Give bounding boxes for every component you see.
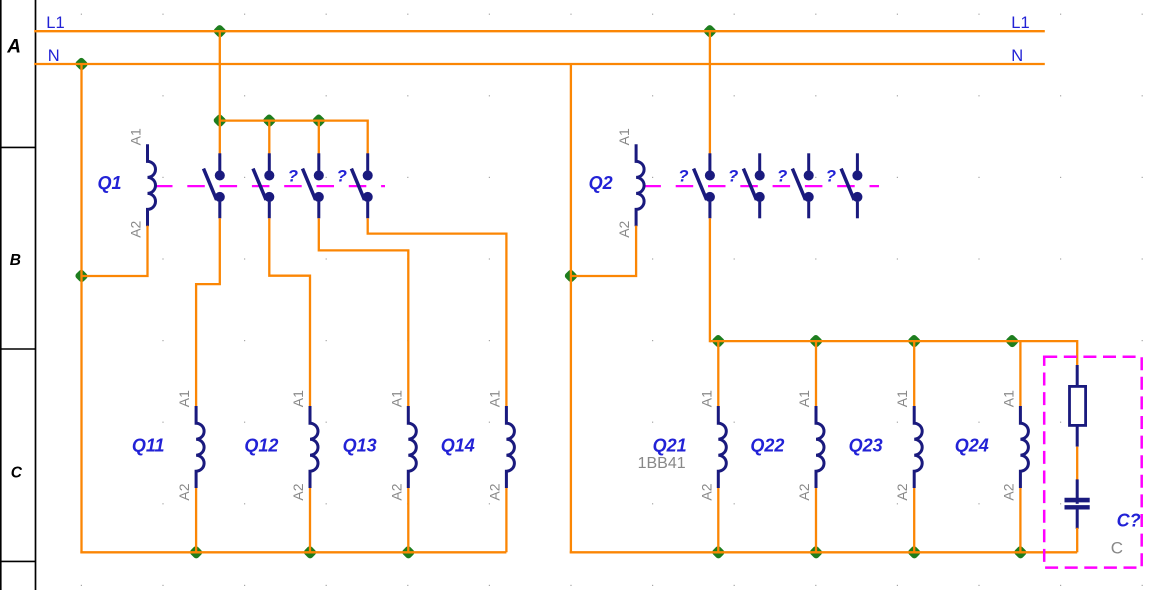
zone divider C/D [0, 560, 36, 562]
node bus2 x Q24 [1005, 334, 1020, 349]
svg-text:Q2: Q2 [589, 173, 613, 193]
coil Q11 [196, 406, 204, 488]
svg-text:A2: A2 [176, 483, 192, 500]
capacitor C plate bottom [1065, 505, 1090, 509]
svg-text:L1: L1 [1011, 14, 1029, 32]
wire Q22 to bottom rail [815, 488, 817, 552]
svg-text:Q24: Q24 [955, 435, 989, 455]
svg-text:A1: A1 [290, 390, 306, 407]
wire coil bus right group [710, 340, 1077, 342]
svg-text:A2: A2 [796, 483, 812, 500]
wire Q1.4 to Q14 [368, 218, 507, 406]
coil Q23 [914, 406, 922, 488]
node right rail x Q2.A2 [564, 269, 579, 284]
wire cap branch top [1076, 340, 1078, 366]
wire Q2 A2 to rail [571, 226, 636, 276]
wire resistor lead top [1076, 365, 1079, 387]
node bus x Q1.3 [311, 113, 326, 128]
svg-text:A2: A2 [388, 483, 404, 500]
wire contact bus Q1 [220, 119, 368, 121]
node bus x Q1.1 [212, 113, 227, 128]
contact Q1.2 [253, 153, 274, 218]
svg-text:A2: A2 [1000, 483, 1016, 500]
wire Q1.1 to Q11 [196, 218, 220, 406]
resistor R (rect) [1070, 386, 1086, 425]
wire resistor lead bottom [1076, 425, 1079, 446]
svg-text:C: C [11, 465, 23, 482]
node bottom rail x Q21 [711, 545, 726, 560]
wire L1 line [34, 30, 1045, 32]
svg-text:C?: C? [1117, 510, 1141, 530]
wire Q23 top [913, 341, 915, 406]
node bottom rail x Q24 [1013, 545, 1028, 560]
contact Q1.4 [351, 153, 372, 218]
wire between R and C [1076, 447, 1078, 481]
selection box C? (dashed) [1044, 357, 1142, 568]
svg-text:A1: A1 [388, 390, 404, 407]
linkage line Q1 (dashed) [155, 185, 385, 187]
svg-text:A2: A2 [894, 483, 910, 500]
linkage line Q2 (dashed) [643, 185, 879, 187]
svg-text:?: ? [337, 167, 348, 186]
svg-text:A2: A2 [698, 483, 714, 500]
wire contact Q1.4 top [367, 120, 369, 154]
node bus2 x Q22 [809, 334, 824, 349]
svg-text:?: ? [288, 167, 299, 186]
wire right rail from N [570, 64, 572, 553]
svg-text:N: N [1011, 47, 1023, 65]
node bus2 x Q21 [711, 334, 726, 349]
wire Q1 A2 to rail [82, 226, 148, 276]
node bus2 x Q23 [907, 334, 922, 349]
wire Q14 to bottom rail [505, 488, 507, 552]
svg-text:A1: A1 [128, 128, 144, 145]
svg-text:C: C [1111, 538, 1123, 557]
svg-text:1BB41: 1BB41 [638, 455, 686, 472]
wire Q1.3 to Q13 [319, 218, 409, 406]
contact Q1.1 [204, 153, 225, 218]
svg-text:Q22: Q22 [750, 435, 784, 455]
zone divider A/B [0, 146, 36, 148]
wire Q1 feed from L1 [219, 31, 221, 120]
node L1 x Q2 feed [703, 24, 718, 39]
wire capacitor lead top [1076, 479, 1079, 503]
svg-text:Q1: Q1 [97, 173, 121, 193]
svg-text:A2: A2 [616, 220, 632, 237]
svg-text:Q21: Q21 [653, 435, 687, 455]
coil Q12 [310, 406, 318, 488]
svg-text:A2: A2 [290, 483, 306, 500]
wire left rail from N [80, 64, 82, 553]
wire Q22 top [815, 341, 817, 406]
wire Q12 to bottom rail [309, 488, 311, 552]
svg-text:Q13: Q13 [343, 435, 377, 455]
node bottom rail x Q11 [189, 545, 204, 560]
svg-text:Q12: Q12 [244, 435, 278, 455]
svg-text:A2: A2 [486, 483, 502, 500]
svg-text:B: B [10, 252, 21, 269]
wire contact Q1.2 top [268, 121, 270, 154]
node L1 x Q1 feed [212, 24, 227, 39]
wire capacitor lead bottom [1076, 509, 1079, 529]
wire Q2.1 bottom to bus [709, 218, 711, 342]
coil Q21 [718, 406, 726, 488]
node bottom rail x Q12 [303, 545, 318, 560]
svg-text:Q14: Q14 [441, 435, 475, 455]
node bus x Q1.2 [262, 113, 277, 128]
svg-text:A1: A1 [894, 390, 910, 407]
wire contact Q1.1 top [219, 121, 221, 154]
wire Q11 to bottom rail [195, 488, 197, 552]
wire cap branch bottom [1076, 528, 1078, 553]
contact Q2.4 [841, 153, 862, 218]
zone divider B/C [0, 348, 36, 350]
svg-text:A1: A1 [796, 390, 812, 407]
svg-text:?: ? [777, 167, 788, 186]
coil Q13 [408, 406, 416, 488]
node N x left rail [74, 57, 89, 72]
svg-text:?: ? [678, 167, 689, 186]
wire Q21 top [717, 341, 719, 406]
node bottom rail x Q22 [809, 545, 824, 560]
contact Q1.3 [303, 153, 324, 218]
svg-text:A: A [6, 37, 21, 58]
svg-text:A1: A1 [698, 390, 714, 407]
coil Q24 [1020, 406, 1028, 488]
svg-text:A2: A2 [128, 220, 144, 237]
wire bottom rail left [80, 551, 506, 553]
svg-text:?: ? [728, 167, 739, 186]
svg-text:N: N [48, 47, 60, 65]
border frame left edge [0, 0, 2, 590]
wire contact Q1.3 top [318, 121, 320, 154]
svg-text:Q23: Q23 [849, 435, 883, 455]
border frame inner line [35, 0, 37, 590]
coil Q22 [816, 406, 824, 488]
svg-text:A1: A1 [176, 390, 192, 407]
wire Q13 to bottom rail [407, 488, 409, 552]
wire Q21 to bottom rail [717, 488, 719, 552]
wire Q1.2 to Q12 [269, 218, 310, 406]
wire Q2 contact feed from L1 [709, 31, 711, 153]
svg-text:A1: A1 [1000, 390, 1016, 407]
coil Q1 [148, 144, 156, 226]
contact Q2.3 [792, 153, 813, 218]
wire Q23 to bottom rail [913, 488, 915, 552]
coil Q2 [636, 144, 644, 226]
wire Q24 top [1019, 341, 1021, 406]
coil Q14 [506, 406, 514, 488]
contact Q2.2 [743, 153, 764, 218]
capacitor C plate top [1065, 498, 1090, 503]
wire N line [34, 63, 1045, 65]
svg-text:?: ? [826, 167, 837, 186]
wire bottom rail right [570, 551, 1077, 553]
svg-text:A1: A1 [486, 390, 502, 407]
contact Q2.1 [694, 153, 715, 218]
svg-text:L1: L1 [46, 14, 64, 32]
wire Q24 to bottom rail [1019, 488, 1021, 552]
svg-text:A1: A1 [616, 128, 632, 145]
node left rail x Q1.A2 [74, 269, 89, 284]
svg-text:Q11: Q11 [132, 435, 165, 455]
node bottom rail x Q23 [907, 545, 922, 560]
node bottom rail x Q13 [401, 545, 416, 560]
